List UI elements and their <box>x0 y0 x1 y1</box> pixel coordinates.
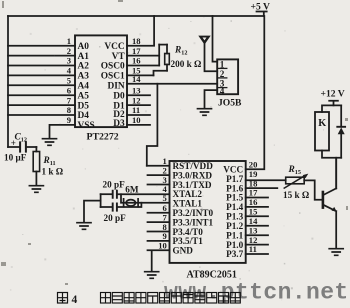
svg-text:1 k Ω: 1 k Ω <box>42 167 64 177</box>
ground (AT89C2051 GND) <box>145 272 159 279</box>
wire: R12 top bracket <box>159 44 167 46</box>
JO5B pin 3 underline <box>217 87 227 89</box>
svg-text:OSC0: OSC0 <box>101 62 125 72</box>
ground (PT2272 VSS) <box>43 139 57 146</box>
wire: AT89C2051 pin 15 stub <box>246 215 268 217</box>
svg-text:10: 10 <box>158 241 167 251</box>
+5V supply symbol <box>257 12 267 17</box>
wire: caps junction to ground <box>84 201 101 223</box>
wire: bottom cap to XTAL1 jog <box>117 203 141 207</box>
wire: riser +5V to AT89C2051 VCC pin 20 <box>246 16 265 169</box>
svg-text:1: 1 <box>220 59 225 69</box>
wire: PT2272 pin 9 VSS to ground <box>50 125 76 139</box>
svg-text:15: 15 <box>249 207 258 217</box>
svg-text:12: 12 <box>132 95 141 105</box>
wire: AT89C2051 pin 17 stub <box>246 197 268 199</box>
svg-text:1: 1 <box>67 36 71 46</box>
AT89C2051 right pin labels <box>223 165 243 260</box>
svg-text:D5: D5 <box>78 101 90 111</box>
svg-text:4: 4 <box>220 86 225 96</box>
svg-text:P3.7: P3.7 <box>226 249 244 259</box>
diode D1 cathode bar <box>337 126 345 128</box>
wire: PT2272 pin 12 D1 stub <box>127 104 150 106</box>
wire: R12 bracket left vertical (VT/OSC0 side) <box>158 45 160 66</box>
resistor R12 body <box>165 54 170 65</box>
PT2272 left pin labels <box>78 42 95 131</box>
PT2272 right pin labels <box>101 42 126 129</box>
svg-text:A2: A2 <box>78 62 90 72</box>
wire: PT2272 pin 4 A3 <box>8 74 75 76</box>
svg-text:3: 3 <box>67 56 71 66</box>
JO5B pin numbers 1-4 <box>220 59 225 96</box>
svg-text:8: 8 <box>67 105 72 115</box>
svg-text:K: K <box>318 118 326 129</box>
resistor R11 1k leads <box>35 147 37 186</box>
wire: JO5B pin 4 to ground <box>205 90 218 108</box>
svg-text:5: 5 <box>67 76 71 86</box>
AT89C2051 left pin numbers 1-10 <box>158 156 167 251</box>
wire: riser +5V to PT2272 VCC pin 18 <box>127 16 154 46</box>
wire: PT2272 pin 2 A1 <box>8 55 75 57</box>
wire: AT89C2051 pin 14 stub <box>246 225 268 227</box>
variable resistor R15 arrow <box>284 176 305 189</box>
antenna ANT1 stem <box>205 44 218 71</box>
svg-text:6: 6 <box>67 85 72 95</box>
PT2272 right pin numbers 18-10 <box>132 36 141 125</box>
wire: +12V stem and tick <box>329 101 338 106</box>
wire: crystal junction vertical <box>100 194 102 207</box>
svg-text:JO5B: JO5B <box>218 98 242 109</box>
wire: bottom 20pF cap left lead <box>101 206 113 208</box>
ground (under R11) <box>29 186 43 193</box>
svg-text:PT2272: PT2272 <box>87 132 119 143</box>
svg-text:+: + <box>11 138 16 148</box>
wire: top 20pF cap left lead <box>101 193 113 195</box>
wire: relay bottom tee <box>322 151 341 189</box>
wire: PT2272 pin 16 OSC0 stub <box>127 65 159 67</box>
wire: AT89C2051 pin 2 P3.0 stub <box>148 174 170 176</box>
wire: AT89C2051 pin 9 P3.5 stub <box>148 240 170 242</box>
+5V rail (top) <box>8 15 264 17</box>
wire: XTAL1 line to AT89C2051 pin 5 <box>121 194 170 203</box>
svg-text:2: 2 <box>220 69 225 79</box>
svg-text:11: 11 <box>132 105 140 115</box>
resistor R11 body <box>33 152 39 172</box>
wire: PT2272 pin 6 A5 <box>8 94 75 96</box>
wire: R15 to transistor base <box>304 180 323 199</box>
svg-text:A3: A3 <box>78 72 90 82</box>
svg-text:D4: D4 <box>78 111 90 121</box>
svg-text:200 k Ω: 200 k Ω <box>171 59 202 69</box>
svg-text:9: 9 <box>67 115 71 125</box>
svg-text:18: 18 <box>132 36 141 46</box>
wire: PT2272 pin 14 DIN to JO5B pin 3 <box>127 83 217 85</box>
crystal Y1 6M body <box>126 200 135 206</box>
wire: AT89C2051 pin 6 P3.2 stub <box>148 212 170 214</box>
capacitor C3 20pF bottom plates <box>113 203 117 210</box>
svg-text:7: 7 <box>67 95 72 105</box>
antenna ANT1 triangle <box>198 36 210 45</box>
wire: PT2272 pin 13 D0 stub <box>127 94 150 96</box>
transistor Q1 emitter arrow <box>332 207 337 212</box>
wire: DIN tee down to AT89C2051 pin 1 RST <box>147 84 158 166</box>
svg-text:20 pF: 20 pF <box>104 213 127 223</box>
resistor R15 body <box>286 177 305 184</box>
svg-text:14: 14 <box>132 74 141 84</box>
diode D1 leads <box>340 105 342 157</box>
wire: PT2272 pin 5 A4 <box>8 84 75 86</box>
wire: AT89C2051 pin 11 stub <box>246 253 268 255</box>
wire: AT89C2051 pin 10 GND to ground <box>148 250 170 271</box>
JO5B pin 2 underline <box>217 77 227 79</box>
svg-text:DIN: DIN <box>107 82 124 92</box>
svg-text:10: 10 <box>132 115 141 125</box>
antenna ANT1 inner notch <box>203 38 207 41</box>
wire: AT89C2051 pin 8 P3.4 stub <box>148 231 170 233</box>
svg-text:6M: 6M <box>125 185 139 195</box>
resistor R12 200k leads <box>166 45 168 71</box>
wire: PT2272 pin 17 VT stub <box>127 55 159 57</box>
wire: AT89C2051 pin 3 P3.1 stub <box>148 184 170 186</box>
capacitor C12 plates <box>20 142 26 151</box>
svg-text:20 pF: 20 pF <box>103 179 126 189</box>
wire: AT89C2051 pin 12 stub <box>246 244 268 246</box>
svg-text:A5: A5 <box>78 91 90 101</box>
wire: AT89C2051 pin 7 P3.3 stub <box>148 221 170 223</box>
wire: PT2272 pin 11 D2 stub <box>127 114 150 116</box>
svg-text:10 μF: 10 μF <box>4 152 27 162</box>
svg-text:5: 5 <box>163 193 167 203</box>
svg-text:D3: D3 <box>113 119 125 129</box>
svg-text:OSC1: OSC1 <box>101 72 125 82</box>
wire: XTAL2 line to AT89C2051 pin 4 <box>117 193 170 195</box>
ground (transistor emitter) <box>329 249 343 256</box>
AT89C2051 left pin labels <box>173 161 214 256</box>
wire: AT89C2051 pin 19 P1.7 to R15 <box>246 179 286 181</box>
IC U3 AT89C2051 body <box>170 161 246 263</box>
svg-text:XTAL1: XTAL1 <box>173 198 203 208</box>
wire: C12 input from left bus <box>8 146 20 148</box>
svg-text:2: 2 <box>67 46 71 56</box>
wire: AT89C2051 pin 18 stub <box>246 187 278 189</box>
svg-text:16: 16 <box>132 56 141 66</box>
AT89C2051 right pin numbers 20-11 <box>249 160 258 255</box>
IC U1 PT2272 body <box>75 35 127 127</box>
wire: PT2272 pin 10 D3 stub <box>127 124 150 126</box>
wire: PT2272 pin 3 A2 <box>8 65 75 67</box>
wire: AT89C2051 pin 1 RST/VDD <box>147 165 170 167</box>
PT2272 left pin numbers 1-9 <box>67 36 72 125</box>
svg-text:17: 17 <box>132 46 141 56</box>
svg-text:+5 V: +5 V <box>251 2 270 13</box>
svg-text:A4: A4 <box>78 82 90 92</box>
wire: C12 to R11 junction <box>26 146 36 148</box>
svg-text:D0: D0 <box>113 91 125 101</box>
svg-text:11: 11 <box>249 244 257 254</box>
JO5B pin 1 underline <box>217 67 227 69</box>
wire: AT89C2051 pin 13 stub <box>246 234 268 236</box>
capacitor C2 20pF top plates <box>113 191 117 198</box>
transistor Q1 emitter <box>324 205 336 248</box>
wire: PT2272 pin 15 OSC1 stub <box>127 74 154 76</box>
wire: R12 bottom bracket to OSC1 <box>154 71 168 76</box>
IC U2 JO5B body <box>217 59 238 94</box>
wire: left border bus down to C12 <box>7 16 9 147</box>
svg-text:15 k Ω: 15 k Ω <box>283 190 309 200</box>
wire: PT2272 pin 1 A0 <box>8 45 75 47</box>
caption 图 4 (figure label, fake CJK glyph) <box>58 293 68 304</box>
ground (crystal caps) <box>77 223 91 230</box>
ground (JO5B pin 4) <box>198 109 212 116</box>
transistor Q1 base bar <box>322 192 325 208</box>
transistor Q1 collector <box>324 158 336 195</box>
caption 信息接收与控制装置原理图 (fake CJK glyphs) <box>101 293 241 304</box>
svg-text:VT: VT <box>112 52 126 62</box>
svg-text:4: 4 <box>72 294 78 306</box>
relay K coil body <box>315 112 329 151</box>
svg-text:+12 V: +12 V <box>321 88 345 99</box>
wire: riser +5V to JO5B pin 1 <box>213 16 218 62</box>
wire: relay top tee <box>322 105 341 112</box>
wire: PT2272 pin 8 D4 <box>8 114 75 116</box>
svg-text:GND: GND <box>173 246 194 256</box>
svg-text:VCC: VCC <box>104 42 125 52</box>
svg-text:P1.3: P1.3 <box>226 212 244 222</box>
crystal Y1 6M plates <box>124 199 139 207</box>
wire: PT2272 pin 7 D5 <box>8 104 75 106</box>
svg-text:4: 4 <box>67 66 72 76</box>
svg-text:VSS: VSS <box>78 121 95 131</box>
svg-text:A0: A0 <box>78 42 90 52</box>
svg-text:13: 13 <box>132 85 141 95</box>
diode D1 triangle <box>338 128 345 135</box>
wire: AT89C2051 pin 16 stub <box>246 206 268 208</box>
